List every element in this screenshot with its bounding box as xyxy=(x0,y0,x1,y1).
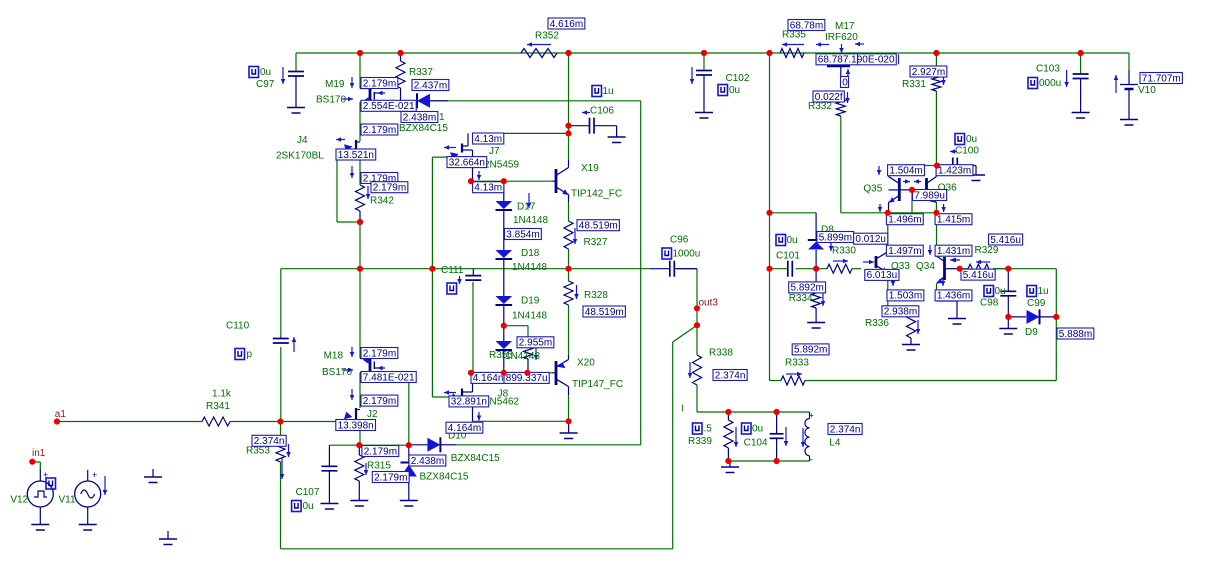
svg-text:3.854m: 3.854m xyxy=(506,229,539,240)
svg-text:C111: C111 xyxy=(441,265,464,276)
wire J2 source down xyxy=(359,423,361,445)
capacitor C111 xyxy=(472,269,474,276)
JFET J7 leads xyxy=(472,168,474,182)
source V11 xyxy=(87,470,89,481)
svg-text:X19: X19 xyxy=(581,163,599,174)
value box L4 current xyxy=(828,424,862,435)
svg-text:R330: R330 xyxy=(832,246,856,257)
svg-text:1N4148: 1N4148 xyxy=(505,351,540,362)
svg-text:1N4148: 1N4148 xyxy=(512,262,547,273)
wire M19 gate / zener net y101 xyxy=(390,100,641,102)
svg-text:C96: C96 xyxy=(670,235,689,246)
svg-text:C98: C98 xyxy=(980,298,999,309)
resistor R336 xyxy=(907,310,916,338)
svg-text:+: + xyxy=(809,411,814,420)
value box R338 current xyxy=(713,370,747,381)
svg-text:C102: C102 xyxy=(726,73,750,84)
svg-text:0: 0 xyxy=(842,77,848,88)
svg-text:1: 1 xyxy=(439,112,445,123)
wire R355 jog xyxy=(504,325,528,327)
value box R335 current xyxy=(788,20,825,31)
svg-text:2.438m: 2.438m xyxy=(411,456,444,467)
wire R327 to rail xyxy=(568,249,570,269)
resistor R339 labels xyxy=(693,423,703,434)
value box J7 gate current xyxy=(447,157,487,168)
wire Q34 emitter down xyxy=(936,284,938,290)
svg-text:2.179m: 2.179m xyxy=(373,183,406,194)
svg-text:2.437m: 2.437m xyxy=(414,80,447,91)
value box D17 current xyxy=(505,229,542,240)
value box R352 current xyxy=(548,18,585,29)
transistor Q36 xyxy=(925,178,928,201)
value box Q35 collector current xyxy=(888,165,925,176)
resistor R337 xyxy=(400,53,402,61)
transistor Q35 xyxy=(898,178,901,201)
JFET J8 leads xyxy=(472,402,474,421)
svg-text:2.438m: 2.438m xyxy=(403,112,436,123)
value box M17 gate xyxy=(841,77,849,88)
value box R334 current xyxy=(789,282,826,293)
wire Q35 collector net y165 xyxy=(889,165,938,167)
value box D11 current xyxy=(401,112,438,123)
value box Q36 collector current xyxy=(936,165,973,176)
svg-text:I: I xyxy=(681,404,684,415)
value box R353 current xyxy=(252,435,286,446)
resistor R334 xyxy=(815,269,817,290)
wire Q33 emitter down xyxy=(887,273,889,291)
svg-text:2.179m: 2.179m xyxy=(363,396,396,407)
current arrow Q34 base xyxy=(929,245,931,255)
wire Q35/Q36 base rail xyxy=(899,189,926,191)
transistor Q33 xyxy=(875,256,878,268)
svg-text:4.616m: 4.616m xyxy=(550,19,583,30)
svg-text:a1: a1 xyxy=(55,409,67,420)
value box D12 current xyxy=(409,455,446,466)
resistor R328 xyxy=(564,281,573,305)
resistor R352 xyxy=(521,49,557,58)
diode D19 1N4148 xyxy=(496,296,513,304)
JFET J2 2SK170BL xyxy=(355,408,357,424)
wire mid rail right of C96 xyxy=(677,268,697,270)
JFET J7 2N5459 xyxy=(461,144,463,153)
wire Q33 emitter to R336 xyxy=(887,301,889,308)
wire M18 gate net x408 xyxy=(408,383,410,445)
svg-text:48.519m: 48.519m xyxy=(579,221,618,232)
svg-text:7.481E-021: 7.481E-021 xyxy=(363,372,415,383)
svg-text:2N5459: 2N5459 xyxy=(484,160,519,171)
wire R329 right lead xyxy=(993,268,1008,270)
current arrow Q35 collector xyxy=(878,166,880,175)
svg-text:4.164n: 4.164n xyxy=(473,373,504,384)
current arrow Q34 emitter 2 xyxy=(942,277,944,286)
wire M17 source net y213 xyxy=(840,116,842,213)
value box Q34 emitter current xyxy=(935,290,972,301)
svg-text:C110: C110 xyxy=(226,321,250,332)
wire mid rail left xyxy=(281,268,650,270)
svg-text:IRF620: IRF620 xyxy=(825,32,858,43)
svg-text:0.012u: 0.012u xyxy=(855,234,886,245)
wire D8 net y213 xyxy=(770,212,817,214)
wire R342 lower lead xyxy=(359,211,361,222)
svg-text:1000u: 1000u xyxy=(673,249,701,260)
transistor X20 TIP147 xyxy=(555,361,558,385)
capacitor C107 xyxy=(328,445,330,466)
wire D9 net xyxy=(1007,269,1009,291)
value box J8 gate current xyxy=(449,396,489,407)
svg-text:0u: 0u xyxy=(787,235,798,246)
value box R331 current xyxy=(910,66,947,77)
svg-text:TIP147_FC: TIP147_FC xyxy=(572,379,623,390)
svg-text:p: p xyxy=(247,349,253,360)
svg-text:V10: V10 xyxy=(1138,85,1156,96)
ground mid-left 2 xyxy=(167,531,169,539)
svg-text:C106: C106 xyxy=(590,106,614,117)
svg-text:R334: R334 xyxy=(789,293,813,304)
svg-text:5.899m: 5.899m xyxy=(819,232,852,243)
svg-text:out3: out3 xyxy=(699,298,719,309)
svg-text:R333: R333 xyxy=(785,358,809,369)
value box J4 gate current xyxy=(336,149,376,160)
capacitor C99 label xyxy=(1027,286,1037,297)
capacitor C110 xyxy=(273,338,289,340)
diode D9 xyxy=(1027,310,1040,324)
wire x769 vertical xyxy=(769,53,771,381)
resistor R341 xyxy=(202,417,230,426)
current arrow Q33 emitter xyxy=(892,277,894,286)
ground Q34 xyxy=(948,318,966,320)
current arrow V10 xyxy=(1115,75,1117,93)
svg-text:0.022f: 0.022f xyxy=(815,92,843,103)
svg-text:2.927m: 2.927m xyxy=(912,67,945,78)
svg-text:C101: C101 xyxy=(776,251,800,262)
svg-text:48.519m: 48.519m xyxy=(585,307,624,318)
wire C96 to out3 xyxy=(696,269,698,326)
wire Q33 collector riser xyxy=(887,213,889,252)
svg-text:D9: D9 xyxy=(1025,327,1038,338)
wire M19 drain xyxy=(359,53,361,89)
svg-text:5.892m: 5.892m xyxy=(794,345,827,356)
wire R353 leads xyxy=(280,422,282,441)
wire bottom return xyxy=(281,548,673,550)
svg-text:M17: M17 xyxy=(835,21,855,32)
capacitor C100 xyxy=(937,165,953,167)
value box R337 current xyxy=(412,80,449,91)
wire M18 source node to D10 xyxy=(359,444,409,446)
svg-text:2N5462: 2N5462 xyxy=(484,396,519,407)
zener D11 BZX84C15 xyxy=(416,93,418,108)
svg-text:Q34: Q34 xyxy=(916,261,935,272)
JFET J8 2N5462 xyxy=(461,389,463,405)
svg-text:BZX84C15: BZX84C15 xyxy=(420,472,469,483)
MOSFET M19 BS170 xyxy=(369,89,372,103)
wire C98 loop right xyxy=(1055,269,1057,381)
wire J7 drain y133 xyxy=(473,132,569,134)
value box J8 drain current xyxy=(471,372,505,383)
capacitor C98 label xyxy=(984,286,994,297)
wire Q34 base riser xyxy=(936,213,938,256)
MOSFET M17 IRF620 xyxy=(827,64,850,67)
wire top supply rail xyxy=(296,52,1129,54)
svg-text:71.707m: 71.707m xyxy=(1142,73,1181,84)
svg-text:C100: C100 xyxy=(955,146,979,157)
svg-text:13.521n: 13.521n xyxy=(338,150,374,161)
svg-text:R342: R342 xyxy=(370,196,394,207)
capacitor C101 xyxy=(787,261,789,277)
wire J4 source to R342 xyxy=(359,156,361,185)
svg-text:.5: .5 xyxy=(704,424,713,435)
svg-text:1.496m: 1.496m xyxy=(888,215,921,226)
svg-text:R341: R341 xyxy=(206,401,230,412)
resistor R327 xyxy=(564,221,573,249)
resistor R332 xyxy=(836,99,845,116)
svg-text:1N4148: 1N4148 xyxy=(512,311,547,322)
diode D17 1N4148 xyxy=(503,181,505,201)
svg-text:1.497m: 1.497m xyxy=(888,246,921,257)
value box M19 drain current xyxy=(361,78,398,89)
resistor R331 xyxy=(932,75,941,91)
svg-text:BS170: BS170 xyxy=(322,367,352,378)
svg-text:2.374n: 2.374n xyxy=(254,436,285,447)
current arrow Q36 emitter xyxy=(943,204,945,212)
value box D8 value xyxy=(854,233,888,244)
capacitor C106 xyxy=(589,118,591,134)
value box Q34 base current xyxy=(935,245,972,256)
value box R329 current b xyxy=(961,269,995,280)
value box X20 base current xyxy=(504,372,549,383)
svg-text:1.431m: 1.431m xyxy=(937,246,970,257)
wire out3 to R338 xyxy=(696,325,698,355)
svg-text:2.179m: 2.179m xyxy=(363,125,396,136)
wire x936 upper xyxy=(935,53,937,75)
capacitor C104 xyxy=(776,412,778,434)
svg-text:R315: R315 xyxy=(367,461,391,472)
svg-text:BZX84C15: BZX84C15 xyxy=(451,453,500,464)
svg-text:R328: R328 xyxy=(584,290,608,301)
svg-text:BZX84C15: BZX84C15 xyxy=(399,123,448,134)
wire M18 source to J2 xyxy=(359,373,361,409)
value box R336 current xyxy=(882,306,919,317)
svg-text:6.013u: 6.013u xyxy=(867,270,898,281)
svg-text:D18: D18 xyxy=(521,248,540,259)
wire R338 to L4 rail xyxy=(696,385,698,412)
svg-text:2.179m: 2.179m xyxy=(364,446,397,457)
value box J4 source current xyxy=(361,173,398,184)
value box M18 gate current xyxy=(361,372,416,383)
svg-text:1.1k: 1.1k xyxy=(212,389,232,400)
svg-text:68.787.190E-020: 68.787.190E-020 xyxy=(818,55,895,66)
svg-text:V11: V11 xyxy=(59,495,76,506)
svg-text:0u: 0u xyxy=(260,67,271,78)
JFET J4 2SK170BL xyxy=(355,140,357,156)
svg-text:2.374n: 2.374n xyxy=(830,424,861,435)
value box R328 current xyxy=(583,306,625,317)
wire X19 emitter to R327 xyxy=(568,202,570,221)
svg-text:13.398n: 13.398n xyxy=(338,420,374,431)
svg-text:in1: in1 xyxy=(32,448,46,459)
wire J7/J8 gate vertical x432 xyxy=(431,157,433,397)
resistor R329 xyxy=(968,264,993,273)
svg-text:1u: 1u xyxy=(603,86,614,97)
wire R355 bottom xyxy=(527,359,529,373)
wire a1 net xyxy=(57,421,202,423)
wire C101 rail xyxy=(770,268,788,270)
svg-text:Q35: Q35 xyxy=(863,184,882,195)
svg-text:R353: R353 xyxy=(246,446,270,457)
wire M18 drain xyxy=(359,269,361,358)
svg-text:0u: 0u xyxy=(729,85,740,96)
value box M17 divider xyxy=(857,54,859,64)
svg-text:J2: J2 xyxy=(367,409,378,420)
inductor L4 xyxy=(809,412,811,419)
zener D12 BZX84C15 xyxy=(408,445,410,462)
wire Q34 collector stub xyxy=(945,268,960,270)
value box M18 drain current xyxy=(361,348,398,359)
svg-text:0u: 0u xyxy=(995,286,1006,297)
value box R327 current xyxy=(577,220,619,231)
current arrow C103 xyxy=(1066,70,1068,87)
wire Q36 emitter down xyxy=(935,202,937,213)
value box D9 current xyxy=(1057,328,1094,339)
value box Q33 emitter current xyxy=(887,290,924,301)
svg-text:1.415m: 1.415m xyxy=(937,215,970,226)
svg-text:R352: R352 xyxy=(535,31,559,42)
value box D20 current xyxy=(517,337,554,348)
wire L4 bottom rail xyxy=(728,460,809,462)
svg-text:V12: V12 xyxy=(10,495,28,506)
value box Q35 emitter current xyxy=(886,214,923,225)
svg-text:5.416u: 5.416u xyxy=(963,270,994,281)
svg-text:D19: D19 xyxy=(521,296,540,307)
value box Q33 collector current xyxy=(865,269,899,280)
svg-text:R336: R336 xyxy=(865,318,889,329)
svg-text:2.938m: 2.938m xyxy=(884,307,917,318)
wire C107 top xyxy=(329,444,359,446)
svg-text:000u: 000u xyxy=(1039,78,1061,89)
value box M19 gate current xyxy=(361,100,416,111)
value box Q35 base current xyxy=(913,190,947,201)
svg-text:R329: R329 xyxy=(975,245,999,256)
wire R342 bottom to rail xyxy=(359,222,361,269)
value box Q33 base current xyxy=(886,245,923,256)
capacitor C104 label xyxy=(742,423,752,434)
svg-text:-: - xyxy=(810,455,813,465)
battery V10 xyxy=(1128,53,1130,70)
MOSFET M18 BS170 xyxy=(369,359,372,373)
base arrows Q35 Q36 xyxy=(903,181,910,183)
resistor R353 xyxy=(276,440,285,462)
junction dots xyxy=(357,50,363,56)
svg-text:M19: M19 xyxy=(325,79,345,90)
svg-text:4.13m: 4.13m xyxy=(474,183,502,194)
capacitor C102 xyxy=(703,53,705,70)
value box J4 drain current xyxy=(361,124,398,135)
svg-text:1N4148: 1N4148 xyxy=(513,215,548,226)
resistor R330 xyxy=(827,264,852,273)
svg-text:32.891n: 32.891n xyxy=(451,397,487,408)
value box M17 xyxy=(816,54,896,65)
svg-text:C99: C99 xyxy=(1027,298,1046,309)
capacitor C106 label xyxy=(592,86,602,97)
svg-text:C97: C97 xyxy=(256,79,275,90)
svg-text:R337: R337 xyxy=(409,67,433,78)
svg-text:2.179m: 2.179m xyxy=(374,472,407,483)
wire X20 base y373 xyxy=(471,372,553,374)
resistor R338 xyxy=(693,355,702,385)
capacitor C97 label xyxy=(249,67,259,78)
svg-text:68.78m: 68.78m xyxy=(790,20,823,31)
resistor R315 xyxy=(358,445,360,455)
value box J8 source current xyxy=(446,422,483,433)
svg-text:1.423m: 1.423m xyxy=(938,166,971,177)
diode D20 1N4148 xyxy=(496,341,513,349)
ground mid-left 1 xyxy=(152,469,154,477)
capacitor C103 xyxy=(1080,53,1082,74)
svg-text:1.503m: 1.503m xyxy=(889,291,922,302)
wire out3 diagonal xyxy=(673,325,697,342)
svg-text:0u: 0u xyxy=(303,501,314,512)
svg-text:1u: 1u xyxy=(1038,286,1049,297)
svg-text:R327: R327 xyxy=(584,237,608,248)
wire rail to R328 xyxy=(568,269,570,281)
svg-text:D17: D17 xyxy=(517,202,536,213)
diode D18 1N4148 xyxy=(496,250,513,258)
svg-text:+: + xyxy=(92,470,97,480)
resistor R335 xyxy=(780,49,804,58)
svg-text:2.554E-021: 2.554E-021 xyxy=(363,101,415,112)
svg-text:2.955m: 2.955m xyxy=(519,338,552,349)
ground zener D12 xyxy=(400,500,418,502)
svg-text:TIP142_FC: TIP142_FC xyxy=(571,189,622,200)
diode D10 BZX84C15 xyxy=(409,444,428,446)
value box Q36 emitter current xyxy=(935,214,972,225)
svg-text:2.179m: 2.179m xyxy=(363,78,396,89)
wire out3 loop vertical xyxy=(672,342,674,549)
wire J4 gate L xyxy=(337,150,345,152)
svg-text:0u: 0u xyxy=(966,134,977,145)
capacitor C100 label xyxy=(955,134,965,145)
value box J7 source current xyxy=(473,182,504,193)
current arrow C97 xyxy=(282,67,284,84)
value box R333 current xyxy=(792,344,829,355)
value box V10 current xyxy=(1140,73,1182,84)
resistor R333 xyxy=(781,376,805,385)
resistor R342 xyxy=(356,185,365,211)
wire D10 net y445 xyxy=(456,444,641,446)
svg-text:BS170: BS170 xyxy=(316,95,346,106)
wire C111 bottom xyxy=(472,282,474,373)
wire Q34 emitter to ground xyxy=(936,290,938,301)
svg-text:C104: C104 xyxy=(744,438,768,449)
resistor R355 xyxy=(524,341,533,359)
wire R328 to X20 xyxy=(568,305,570,355)
value box D8 current xyxy=(817,232,854,243)
source V12 xyxy=(31,461,33,463)
value box R342 current xyxy=(371,182,408,193)
capacitor C97 xyxy=(295,53,297,71)
svg-text:R339: R339 xyxy=(688,436,712,447)
wire X19 base y181 xyxy=(471,180,553,182)
capacitor C96 xyxy=(650,268,670,270)
svg-text:32.664n: 32.664n xyxy=(449,157,485,168)
svg-text:2.179m: 2.179m xyxy=(363,348,396,359)
wire C106 stub y126 xyxy=(570,125,589,127)
svg-text:1.504m: 1.504m xyxy=(889,166,922,177)
svg-text:R331: R331 xyxy=(902,79,926,90)
value box R332 current xyxy=(813,91,844,102)
value box M18 source current xyxy=(361,395,398,406)
wire X20 collector down xyxy=(568,395,570,421)
wire M19 source to J4 xyxy=(359,102,361,141)
